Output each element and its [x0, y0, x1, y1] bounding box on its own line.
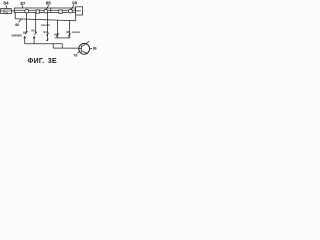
- digits at drop5: [66, 30, 70, 34]
- jog box left edge: [52, 44, 54, 48]
- tap square B: [59, 10, 62, 13]
- switch arm: [19, 19, 22, 22]
- leader 90: [71, 5, 74, 10]
- bar mid line: [14, 9, 75, 11]
- end box minus line: [76, 10, 81, 12]
- leader 87: [21, 5, 23, 8]
- transistor base lead: [79, 48, 81, 50]
- svg-text:ГЕН.: ГЕН.: [3, 12, 9, 14]
- svg-text:96: 96: [66, 30, 70, 34]
- box U84: [1, 9, 12, 14]
- box U84 text: [1, 9, 11, 15]
- contact circle C: [69, 9, 73, 13]
- svg-text:отсчет: отсчет: [41, 23, 50, 27]
- word middle: [41, 23, 50, 27]
- contact circle A: [25, 9, 29, 13]
- transistor emitter: [81, 51, 87, 54]
- wire to base: [62, 47, 79, 50]
- digits at drop4: [54, 32, 58, 36]
- slash on drop 5: [68, 33, 71, 36]
- transistor Q circle: [79, 43, 90, 54]
- float bus line: [55, 37, 70, 39]
- contact circle B: [44, 9, 48, 13]
- wire mid lower: [25, 43, 63, 45]
- wire endbox down: [75, 15, 77, 21]
- wire box84 to bar: [11, 10, 14, 12]
- svg-text:94: 94: [44, 30, 48, 34]
- wire drop 2: [35, 12, 37, 32]
- svg-text:86: 86: [93, 47, 97, 51]
- svg-text:отсчет: отсчет: [72, 30, 81, 34]
- svg-text:86: 86: [15, 23, 19, 27]
- wire main horizontal: [15, 19, 75, 21]
- label 86b: [93, 47, 97, 51]
- label 88: [46, 1, 51, 6]
- svg-text:92: 92: [23, 30, 27, 34]
- svg-text:93: 93: [31, 28, 35, 32]
- svg-text:ФИГ. 3Е: ФИГ. 3Е: [27, 58, 57, 65]
- label 86: [15, 23, 19, 27]
- emitter arrowhead: [86, 52, 88, 54]
- svg-text:отсчет: отсчет: [12, 34, 22, 38]
- wire bar to main left: [14, 12, 16, 18]
- label 87: [20, 1, 25, 6]
- svg-text:88: 88: [46, 1, 51, 6]
- label 84: [3, 1, 9, 6]
- slash on drop 4: [56, 34, 59, 37]
- jog box bottom: [53, 47, 62, 49]
- lower contact up arrow 2: [33, 37, 35, 44]
- jog box right edge: [61, 44, 63, 48]
- arrowhead up 1: [24, 37, 26, 39]
- svg-text:95: 95: [54, 32, 58, 36]
- arrow end drop 3: [46, 39, 48, 41]
- wire drop 4: [57, 20, 59, 38]
- arrowhead drop 1: [25, 31, 28, 34]
- lower contact up arrow 1: [24, 37, 26, 44]
- digits at drop1: [23, 30, 27, 34]
- leader 86b: [90, 48, 92, 50]
- digits at drop2: [31, 28, 35, 32]
- transistor collector: [81, 41, 89, 47]
- tap square A: [36, 10, 39, 13]
- leader 84: [6, 5, 7, 8]
- wire drop 5: [68, 21, 70, 38]
- svg-text:84: 84: [3, 1, 9, 6]
- leader 78: [77, 51, 80, 53]
- wire drop 3: [47, 12, 49, 41]
- transistor base bar: [80, 46, 82, 52]
- bar divider: [50, 8, 52, 12]
- svg-text:90: 90: [72, 0, 77, 5]
- end box 90: [76, 7, 83, 15]
- word right: [72, 30, 81, 34]
- slash on drop 3: [46, 33, 49, 36]
- svg-text:87: 87: [20, 1, 25, 6]
- label 78: [73, 53, 77, 57]
- leader 88: [46, 5, 49, 10]
- arrowhead up 2: [33, 37, 35, 39]
- wire drop 1: [25, 12, 27, 32]
- digits at drop3: [44, 30, 48, 34]
- word left: [12, 34, 22, 38]
- arrowhead drop 2: [34, 32, 37, 35]
- svg-text:78: 78: [73, 53, 77, 57]
- bus bar 87: [14, 8, 75, 12]
- label 90: [72, 0, 77, 5]
